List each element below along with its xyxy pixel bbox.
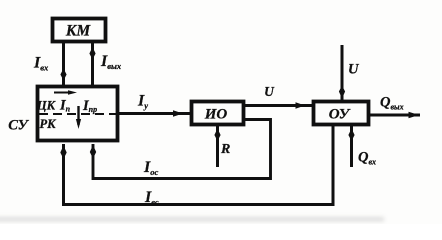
block IO	[192, 102, 244, 125]
vector arrow over I_p	[54, 92, 72, 94]
svg-text:Iвых: Iвых	[100, 53, 122, 71]
svg-text:Qвх: Qвх	[358, 150, 376, 167]
svg-text:U: U	[348, 62, 360, 78]
svg-text:ОУ: ОУ	[329, 107, 351, 123]
wire I_vx (KM down to SU)	[62, 43, 65, 85]
wire U disturbance input	[341, 45, 344, 100]
svg-text:Iп: Iп	[59, 98, 71, 114]
block KM	[53, 19, 106, 42]
wire U (IO to OU)	[245, 104, 312, 107]
svg-text:Iос: Iос	[143, 159, 158, 177]
wire I_os feedback	[93, 120, 271, 179]
svg-text:ИО: ИО	[204, 107, 228, 123]
scan shadow bottom	[0, 217, 384, 222]
small down arrow	[77, 106, 79, 125]
svg-text:РК: РК	[39, 117, 57, 131]
svg-text:Qвых: Qвых	[380, 95, 404, 112]
svg-text:Iу: Iу	[137, 93, 148, 111]
wire R input	[216, 126, 219, 167]
svg-text:ЦК: ЦК	[36, 99, 57, 113]
svg-text:U: U	[264, 84, 275, 99]
wire I_vyx (SU up to KM)	[91, 43, 94, 85]
block OU	[314, 102, 369, 125]
wire I_u (SU to IO)	[119, 112, 190, 115]
wire Q_vyx output	[370, 114, 420, 117]
svg-text:R: R	[220, 142, 230, 157]
svg-text:Iвс: Iвс	[144, 189, 159, 207]
block SU	[38, 87, 118, 141]
dashed divider	[39, 113, 116, 115]
svg-text:КМ: КМ	[65, 23, 92, 40]
wire Q_vx input	[350, 126, 353, 167]
wire I_vs feedback	[64, 126, 334, 205]
svg-text:Iвх: Iвх	[33, 55, 49, 73]
svg-text:Iпр: Iпр	[82, 98, 97, 114]
svg-text:СУ: СУ	[8, 118, 29, 134]
